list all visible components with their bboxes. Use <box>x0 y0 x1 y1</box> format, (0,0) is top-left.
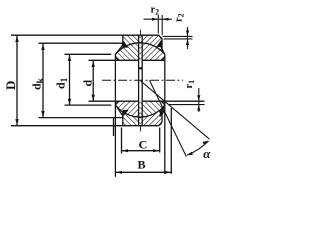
r2 v arrows <box>186 31 189 37</box>
svg-text:D: D <box>3 81 18 90</box>
seal (black) top-right <box>156 39 162 47</box>
d1 dimension line <box>69 54 71 105</box>
C ext lines <box>122 128 160 154</box>
d1 ext top <box>65 53 112 55</box>
r1 chamfer bottom-left <box>115 101 118 104</box>
horizontal centerline <box>102 79 183 81</box>
sphere arc top <box>115 43 164 54</box>
r1 dim line <box>198 88 200 112</box>
sphere arc bottom <box>115 105 164 117</box>
D dimension line <box>16 35 18 126</box>
svg-text:r2: r2 <box>174 13 186 22</box>
alpha line 2 <box>150 80 187 156</box>
outer ring OD bottom + D ext bottom <box>11 108 162 126</box>
r1 arrows <box>197 95 200 101</box>
vertical centerline stubs <box>139 30 141 132</box>
seal (black) bottom-right <box>159 110 166 117</box>
alpha arc <box>187 141 209 155</box>
B stub left odd <box>113 118 115 137</box>
D arrow top <box>15 36 18 42</box>
svg-text:B: B <box>137 158 145 172</box>
dk arrow top <box>41 44 44 50</box>
svg-text:C: C <box>139 138 148 152</box>
bore bottom + d ext bottom + r1 ext <box>89 100 205 102</box>
d1 ext bottom <box>65 104 112 106</box>
r2 vertical dim line <box>187 27 189 49</box>
r2 h arrows <box>152 18 158 21</box>
inner ring left face + B ext left <box>114 54 116 177</box>
B arrows <box>116 171 122 174</box>
alpha line 1 <box>141 81 210 139</box>
r1 chamfer bottom-right <box>162 101 165 104</box>
alpha arc arrows <box>203 141 209 145</box>
svg-text:d1: d1 <box>54 77 71 89</box>
C dim line <box>122 150 160 152</box>
r1 dim: ext line lower <box>169 104 205 106</box>
seal slope bottom-right <box>160 105 165 117</box>
svg-text:r1: r1 <box>184 80 196 89</box>
C arrows <box>122 149 128 152</box>
B dim line <box>115 171 171 173</box>
d1 arrow top <box>68 55 71 61</box>
inner ring right face + B ext right <box>164 54 166 174</box>
outer ring left face bottom <box>122 112 124 126</box>
seal slope top-left <box>115 44 123 54</box>
dk arrow bottom <box>41 111 44 117</box>
svg-text:d: d <box>81 80 95 87</box>
seal slope top-right <box>160 44 165 54</box>
r2 horizontal dim: ext lines <box>158 15 162 35</box>
lube hole walls <box>139 35 143 126</box>
dk ext top <box>39 42 124 44</box>
d dimension line <box>92 60 94 101</box>
D arrow bottom <box>15 119 18 125</box>
r2 horizontal dim line <box>144 18 173 20</box>
dk dimension line <box>42 43 44 117</box>
outer ring OD top + D ext top <box>11 35 162 51</box>
svg-text:α: α <box>203 146 211 161</box>
d1 arrow bottom <box>68 99 71 105</box>
lube hole bar <box>139 67 143 69</box>
outer ring left face top <box>122 35 124 48</box>
dk ext bottom <box>39 117 124 119</box>
r2 vertical dim: ext lines <box>163 36 193 39</box>
seal (black) bottom-left <box>123 110 129 117</box>
d arrow bottom <box>92 95 95 101</box>
svg-text:r2: r2 <box>151 5 160 17</box>
bore top + d ext top <box>89 59 165 61</box>
r1 chamfer top-right <box>162 57 165 60</box>
B ext right <box>170 108 172 174</box>
d arrow top <box>92 61 95 67</box>
hatching: outer & inner ring cross-sections <box>115 35 164 126</box>
r1 chamfer top-left <box>115 57 118 60</box>
seal slope bottom-left <box>115 105 123 117</box>
seal (black) top-left <box>122 40 128 47</box>
